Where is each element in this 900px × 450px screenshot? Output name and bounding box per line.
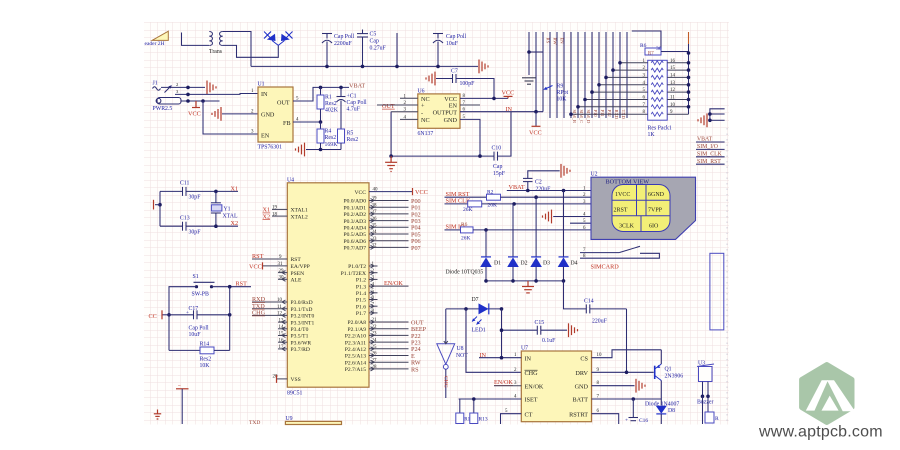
svg-text:P10: P10 bbox=[593, 110, 598, 118]
svg-text:EN: EN bbox=[560, 38, 565, 45]
wire C15 left vertical bbox=[501, 309, 503, 358]
svg-text:GND: GND bbox=[444, 117, 458, 124]
resistor R3 26K bbox=[445, 201, 592, 213]
node junction bbox=[625, 371, 629, 375]
wire res pack pin 10 bbox=[667, 103, 690, 109]
power ground bbox=[479, 60, 488, 74]
pin numbers U2 bbox=[583, 187, 586, 231]
svg-text:RPot: RPot bbox=[557, 90, 569, 96]
svg-text:26K: 26K bbox=[461, 236, 471, 242]
svg-text:2N3906: 2N3906 bbox=[665, 374, 684, 380]
svg-text:Y1: Y1 bbox=[224, 207, 231, 213]
svg-text:C5: C5 bbox=[370, 32, 377, 38]
inverter U8 NOT bbox=[437, 341, 469, 369]
svg-text:10uF: 10uF bbox=[446, 41, 459, 47]
node junction bbox=[167, 313, 171, 317]
svg-text:P1.0/T2: P1.0/T2 bbox=[348, 264, 366, 270]
svg-text:R4: R4 bbox=[325, 129, 332, 135]
pin 31 EA/VPP VCC bbox=[249, 262, 287, 270]
svg-text:P0.2/AD2: P0.2/AD2 bbox=[343, 212, 366, 218]
svg-text:0.1uF: 0.1uF bbox=[542, 338, 556, 344]
svg-text:CC: CC bbox=[149, 313, 157, 320]
microcontroller U4 89C51 bbox=[287, 178, 369, 397]
power ground bbox=[698, 113, 707, 127]
svg-text:U8: U8 bbox=[457, 346, 464, 352]
pin 15 stub bbox=[278, 332, 287, 338]
capacitor C16 bbox=[625, 399, 648, 424]
svg-text:2200uF: 2200uF bbox=[334, 41, 352, 47]
sheet edge dashed bbox=[726, 128, 728, 424]
diode D5 bbox=[264, 32, 278, 46]
svg-text:C13: C13 bbox=[180, 216, 190, 222]
wire U2 pin4 ground bbox=[553, 216, 591, 218]
svg-text:30: 30 bbox=[656, 46, 662, 52]
svg-text:P2.4/A12: P2.4/A12 bbox=[345, 347, 366, 353]
svg-text:P1.2: P1.2 bbox=[356, 278, 366, 284]
wire VBAT to U2 pin1 bbox=[507, 190, 591, 192]
node junction bbox=[527, 50, 531, 54]
svg-text:LED1: LED1 bbox=[472, 328, 486, 334]
wire bottom bbox=[306, 149, 341, 151]
power port VCC bbox=[188, 101, 201, 118]
pin 6 IN bbox=[460, 108, 511, 113]
buzzer U3 bbox=[697, 361, 714, 406]
svg-text:P0.3/AD3: P0.3/AD3 bbox=[343, 219, 366, 225]
power ground bbox=[569, 323, 578, 337]
svg-text:CS: CS bbox=[580, 355, 588, 362]
svg-text:VCC: VCC bbox=[529, 130, 542, 137]
pin 7 wire BATT bbox=[592, 395, 662, 400]
svg-text:GND: GND bbox=[261, 112, 275, 119]
pin 30 stub bbox=[278, 276, 287, 282]
pin 17 stub bbox=[278, 345, 287, 351]
node junction bbox=[534, 110, 538, 114]
svg-text:10: 10 bbox=[597, 353, 603, 358]
svg-text:Diode 10TQ035: Diode 10TQ035 bbox=[446, 270, 484, 276]
svg-text:PSEN: PSEN bbox=[291, 271, 305, 277]
node junction bbox=[526, 189, 530, 193]
svg-text:P2.3/A11: P2.3/A11 bbox=[345, 340, 366, 346]
pin 5 stub bbox=[369, 289, 378, 295]
svg-text:R1: R1 bbox=[325, 95, 332, 101]
svg-text:11: 11 bbox=[670, 96, 675, 101]
node junction bbox=[228, 313, 232, 317]
svg-text:Buzzer: Buzzer bbox=[697, 400, 713, 406]
connector J? Header 2H bbox=[145, 31, 169, 47]
svg-text:40: 40 bbox=[373, 188, 379, 193]
logo hexagon bbox=[802, 365, 855, 423]
svg-text:P3.5/T1: P3.5/T1 bbox=[291, 334, 309, 340]
svg-text:S1: S1 bbox=[193, 274, 199, 280]
svg-text:EA/VPP: EA/VPP bbox=[291, 264, 310, 270]
wire res pack pin 5 bbox=[590, 88, 648, 94]
wire U2 pin5 bbox=[570, 222, 591, 224]
svg-text:P12: P12 bbox=[607, 110, 612, 118]
svg-text:C17: C17 bbox=[189, 306, 199, 312]
svg-text:VBAT: VBAT bbox=[349, 83, 365, 90]
svg-text:SIM_R: SIM_R bbox=[572, 110, 577, 124]
optocoupler U6 6N137 bbox=[418, 89, 461, 138]
pin 7 stub bbox=[369, 302, 378, 308]
svg-text:U6: U6 bbox=[418, 89, 425, 95]
svg-text:CT: CT bbox=[525, 411, 533, 418]
svg-text:CHG: CHG bbox=[252, 310, 266, 317]
svg-text:VCC: VCC bbox=[188, 111, 201, 118]
svg-text:SIMCARD: SIMCARD bbox=[591, 264, 620, 271]
svg-text:P1.1/T2EX: P1.1/T2EX bbox=[341, 271, 366, 277]
node junction bbox=[319, 120, 323, 124]
svg-text:Cap Poll: Cap Poll bbox=[347, 100, 368, 106]
svg-text:6GND: 6GND bbox=[648, 192, 665, 198]
svg-text:XTAL1: XTAL1 bbox=[291, 208, 308, 214]
svg-text:~: ~ bbox=[178, 384, 181, 389]
pin 21 wire OUT bbox=[369, 318, 424, 326]
svg-text:P1.5: P1.5 bbox=[356, 298, 366, 304]
svg-text:C16: C16 bbox=[639, 418, 648, 424]
svg-text:+C1: +C1 bbox=[347, 94, 357, 100]
svg-text:X2: X2 bbox=[231, 220, 239, 227]
svg-text:6N137: 6N137 bbox=[418, 131, 434, 137]
svg-text:Res2: Res2 bbox=[200, 357, 212, 363]
node junction bbox=[708, 112, 712, 116]
svg-text:P3.6/WR: P3.6/WR bbox=[291, 340, 312, 346]
pin 2 stub bbox=[369, 269, 378, 275]
svg-text:+: + bbox=[625, 418, 628, 424]
svg-text:89C51: 89C51 bbox=[287, 391, 303, 397]
wire bottom bbox=[391, 155, 494, 157]
svg-text:0.27uF: 0.27uF bbox=[370, 46, 387, 52]
svg-text:IN: IN bbox=[261, 91, 268, 98]
svg-text:P2.6/A14: P2.6/A14 bbox=[345, 360, 366, 366]
ic U9 bbox=[249, 416, 342, 426]
svg-text:eader 2H: eader 2H bbox=[145, 41, 165, 47]
wire res pack pin 4 bbox=[597, 81, 648, 87]
power ground bbox=[636, 379, 645, 393]
svg-text:VSS: VSS bbox=[291, 377, 301, 383]
wire bbox=[182, 33, 210, 46]
svg-text:Trans: Trans bbox=[209, 49, 223, 55]
pin 4 bbox=[400, 115, 418, 120]
capacitor C2 220uF bbox=[523, 171, 560, 193]
node junction bbox=[395, 65, 399, 69]
svg-text:10: 10 bbox=[670, 103, 676, 108]
svg-text:ALE: ALE bbox=[291, 278, 302, 284]
wire C14 down to DRV bbox=[626, 309, 628, 372]
power ground bbox=[561, 164, 570, 178]
svg-text:J1: J1 bbox=[153, 81, 158, 87]
svg-text:U2: U2 bbox=[591, 172, 598, 178]
potentiometer R9 RPot 10K bbox=[543, 84, 568, 103]
node junction bbox=[492, 97, 496, 101]
svg-text:Cap: Cap bbox=[370, 39, 379, 45]
svg-text:SW-PB: SW-PB bbox=[192, 292, 210, 298]
svg-text:SIM_C: SIM_C bbox=[579, 110, 584, 124]
resistor R7 30 bbox=[632, 31, 689, 57]
pin 5 wire CT bbox=[501, 409, 522, 424]
svg-text:VCC: VCC bbox=[354, 190, 366, 196]
power ground bbox=[426, 72, 435, 86]
pin 3 wire bbox=[494, 381, 521, 386]
node junction bbox=[512, 202, 516, 206]
svg-text:VBAT: VBAT bbox=[509, 184, 525, 191]
svg-text:U9: U9 bbox=[286, 416, 293, 422]
wire OUT to VBAT bbox=[293, 87, 349, 101]
wire bbox=[223, 32, 251, 67]
node junction bbox=[511, 279, 515, 283]
node junction bbox=[389, 154, 393, 158]
wire bbox=[710, 119, 725, 121]
resistor R1 Res2 402K bbox=[317, 87, 339, 122]
svg-text:D3: D3 bbox=[543, 261, 550, 267]
svg-text:C14: C14 bbox=[584, 299, 594, 305]
pin 23 wire P22 bbox=[369, 332, 421, 340]
svg-text:P0.4/AD4: P0.4/AD4 bbox=[343, 226, 366, 232]
node junction bbox=[214, 190, 218, 194]
svg-text:D7: D7 bbox=[472, 297, 479, 303]
pin 1 bbox=[400, 94, 418, 99]
pin 10 wire CS bbox=[592, 350, 662, 358]
node junction bbox=[500, 356, 504, 360]
svg-text:P0.6/AD6: P0.6/AD6 bbox=[343, 239, 366, 245]
capacitor C17 Cap Poll 10uF bbox=[169, 306, 230, 338]
pin 38 wire P01 bbox=[369, 203, 421, 211]
diode D4 bbox=[558, 191, 578, 281]
net label SIM_CLK bbox=[696, 152, 725, 158]
svg-text:RS: RS bbox=[411, 366, 419, 373]
wire bbox=[396, 33, 398, 66]
power ground bbox=[543, 210, 552, 224]
wire res pack pin 6 bbox=[583, 96, 648, 102]
switch S1 SW-PB bbox=[192, 274, 215, 298]
net labels rotated top bbox=[546, 38, 565, 46]
capacitor C11 30pF bbox=[160, 181, 238, 201]
svg-text:14: 14 bbox=[670, 73, 676, 78]
svg-text:P2.0/A8: P2.0/A8 bbox=[348, 320, 367, 326]
charger U7 bbox=[521, 346, 592, 422]
pin 20 VSS bbox=[273, 375, 288, 383]
svg-text:-: - bbox=[421, 109, 423, 116]
svg-text:C7: C7 bbox=[451, 69, 458, 75]
svg-text:U7: U7 bbox=[521, 346, 528, 352]
node junction bbox=[708, 119, 712, 123]
svg-text:10: 10 bbox=[277, 298, 283, 303]
svg-text:R7: R7 bbox=[648, 52, 654, 57]
pin 22 wire BEEP bbox=[369, 325, 427, 333]
svg-text:OUTPUT: OUTPUT bbox=[433, 109, 458, 116]
resistor R16 bbox=[703, 396, 720, 424]
pin 4 wire EN/OK bbox=[369, 280, 409, 288]
capacitor C1 Cap Poll 4.7uF bbox=[337, 87, 368, 129]
svg-text:15pF: 15pF bbox=[493, 171, 506, 177]
sim holder U2 BOTTOM VIEW bbox=[591, 172, 696, 240]
svg-text:RSTRT: RSTRT bbox=[569, 411, 588, 418]
node junction bbox=[484, 228, 488, 232]
svg-text:PWR2.5: PWR2.5 bbox=[153, 106, 173, 112]
wire bbox=[710, 113, 725, 115]
pin 1 wire bbox=[479, 353, 521, 358]
svg-text:R5: R5 bbox=[347, 131, 354, 137]
pin 8 VCC bbox=[460, 94, 508, 99]
wire vertical bus cluster bbox=[529, 32, 627, 118]
crystal Y1 XTAL bbox=[211, 191, 238, 226]
svg-text:P07: P07 bbox=[411, 245, 421, 252]
svg-text:Cap Poll: Cap Poll bbox=[334, 34, 355, 40]
diode D8 1N4007 bbox=[645, 402, 679, 425]
svg-text:EN/OK: EN/OK bbox=[384, 280, 403, 287]
power ground bbox=[296, 143, 305, 157]
resistor R4 Res2 169K bbox=[317, 122, 338, 150]
pin 3 bbox=[391, 108, 418, 113]
pin 35 wire P04 bbox=[369, 224, 421, 232]
svg-text:D1: D1 bbox=[494, 261, 501, 267]
svg-text:10K: 10K bbox=[557, 97, 568, 103]
wire EN bbox=[203, 101, 258, 134]
svg-text:RST: RST bbox=[236, 280, 248, 287]
svg-text:1VCC: 1VCC bbox=[615, 192, 630, 198]
pin 34 wire P05 bbox=[369, 230, 421, 238]
node junction bbox=[478, 154, 482, 158]
diode D3 bbox=[530, 197, 550, 281]
node junction bbox=[361, 65, 365, 69]
node junction bbox=[632, 397, 636, 401]
svg-text:11: 11 bbox=[277, 305, 282, 310]
pin 40 VCC wire bbox=[369, 188, 428, 197]
node junction bbox=[464, 307, 468, 311]
svg-text:12: 12 bbox=[277, 312, 283, 317]
capacitor C13 30pF bbox=[160, 216, 238, 236]
svg-text:U4: U4 bbox=[287, 178, 294, 184]
wire res pack pin 16 bbox=[667, 59, 690, 65]
svg-text:BATT: BATT bbox=[573, 397, 589, 404]
svg-text:P2.1/A9: P2.1/A9 bbox=[348, 327, 367, 333]
svg-text:C15: C15 bbox=[535, 320, 545, 326]
svg-text:Q1: Q1 bbox=[665, 367, 672, 373]
resistor R5 Res2 bbox=[338, 129, 359, 150]
svg-text:www.aptpcb.com: www.aptpcb.com bbox=[758, 424, 883, 441]
node junction bbox=[186, 86, 190, 90]
power port VCC bbox=[149, 310, 170, 320]
pin 9 RST bbox=[252, 253, 287, 260]
wire left loop bbox=[169, 287, 197, 351]
capacitor Cap Poll 2200uF bbox=[322, 34, 355, 67]
svg-text:RW: RW bbox=[553, 38, 558, 46]
svg-text:R14: R14 bbox=[200, 342, 210, 348]
wire pin3 bbox=[181, 100, 220, 102]
svg-text:26K: 26K bbox=[463, 207, 473, 213]
svg-text:CHG: CHG bbox=[525, 370, 539, 377]
svg-text:Res2: Res2 bbox=[325, 101, 337, 107]
svg-text:RST: RST bbox=[252, 253, 264, 260]
wire res pack pin 11 bbox=[667, 96, 690, 102]
diode D1 bbox=[480, 230, 501, 281]
pin 26 wire E bbox=[369, 352, 415, 360]
node junction bbox=[436, 65, 440, 69]
ground small bbox=[154, 410, 161, 420]
node junction bbox=[562, 279, 566, 283]
svg-text:U1: U1 bbox=[258, 82, 265, 88]
svg-text:18: 18 bbox=[272, 212, 278, 217]
pin 18 X2 bbox=[263, 212, 288, 220]
svg-text:P3.0/RxD: P3.0/RxD bbox=[291, 300, 313, 306]
node junction bbox=[158, 203, 162, 207]
wire res pack pin 7 bbox=[576, 103, 648, 109]
wire NOT input bbox=[445, 309, 447, 344]
svg-text:Cap Poll: Cap Poll bbox=[446, 34, 467, 40]
svg-text:P1.4: P1.4 bbox=[356, 291, 366, 297]
svg-text:12: 12 bbox=[670, 88, 676, 93]
svg-text:R9: R9 bbox=[557, 84, 564, 90]
wire bbox=[710, 109, 725, 121]
node junction bbox=[500, 328, 504, 332]
svg-text:7VPP: 7VPP bbox=[648, 208, 663, 214]
node junction bbox=[562, 189, 566, 193]
pin 13 stub bbox=[278, 318, 287, 324]
svg-text:R: R bbox=[715, 416, 719, 422]
pin 3 stub bbox=[369, 276, 378, 282]
svg-text:13: 13 bbox=[670, 81, 676, 86]
wire FB bbox=[293, 121, 321, 123]
switch sim detect pins 7 8 bbox=[580, 246, 659, 259]
pin 5 bbox=[460, 115, 480, 156]
svg-text:D2: D2 bbox=[521, 261, 528, 267]
svg-text:P2.2/A10: P2.2/A10 bbox=[345, 334, 366, 340]
net labels rotated bottom bbox=[572, 110, 626, 124]
pin 6 stub bbox=[369, 296, 378, 302]
power port VCC bbox=[502, 90, 515, 99]
power ground bbox=[207, 81, 216, 95]
capacitor Cap Poll 10uF bbox=[433, 34, 467, 67]
net label VBAT bbox=[696, 137, 725, 143]
wire res pack pin 3 bbox=[604, 73, 648, 79]
wire bbox=[529, 51, 543, 53]
node junction bbox=[500, 307, 504, 311]
node junction bbox=[484, 279, 488, 283]
svg-text:P1.7: P1.7 bbox=[356, 311, 366, 317]
node junction bbox=[228, 285, 232, 289]
svg-text:R13: R13 bbox=[479, 417, 488, 423]
node junction bbox=[214, 224, 218, 228]
svg-text:30pF: 30pF bbox=[189, 195, 202, 201]
wire res pack pin 12 bbox=[667, 88, 690, 94]
wire vertical bbox=[229, 287, 231, 351]
earth ground bbox=[522, 78, 536, 84]
svg-text:VCC: VCC bbox=[249, 264, 262, 271]
svg-text:OUT: OUT bbox=[277, 100, 290, 107]
pin 32 wire P07 bbox=[369, 244, 421, 252]
net label SIM_I/O bbox=[696, 144, 725, 150]
pin 14 stub bbox=[278, 325, 287, 331]
wire RST bbox=[212, 286, 252, 288]
svg-text:3CLK: 3CLK bbox=[619, 224, 635, 230]
svg-text:TPS76301: TPS76301 bbox=[258, 145, 283, 151]
svg-text:EN: EN bbox=[261, 133, 270, 140]
resistor network Res Pack1 1K bbox=[648, 60, 672, 138]
node junction bbox=[687, 51, 691, 55]
resistor R2 26K bbox=[445, 189, 592, 208]
svg-text:P2.5/A13: P2.5/A13 bbox=[345, 354, 366, 360]
node junction bbox=[325, 65, 329, 69]
svg-text:D8: D8 bbox=[668, 408, 675, 414]
svg-text:20: 20 bbox=[273, 375, 279, 380]
svg-text:VCC: VCC bbox=[415, 189, 428, 196]
svg-text:1K: 1K bbox=[648, 132, 656, 138]
wire res pack pin 9 bbox=[667, 110, 688, 115]
pin 1 stub bbox=[369, 262, 378, 268]
wire pin1 bbox=[161, 82, 205, 87]
wire vertical bbox=[688, 32, 690, 44]
wire diode bus bbox=[486, 280, 564, 282]
wire bbox=[688, 44, 690, 114]
